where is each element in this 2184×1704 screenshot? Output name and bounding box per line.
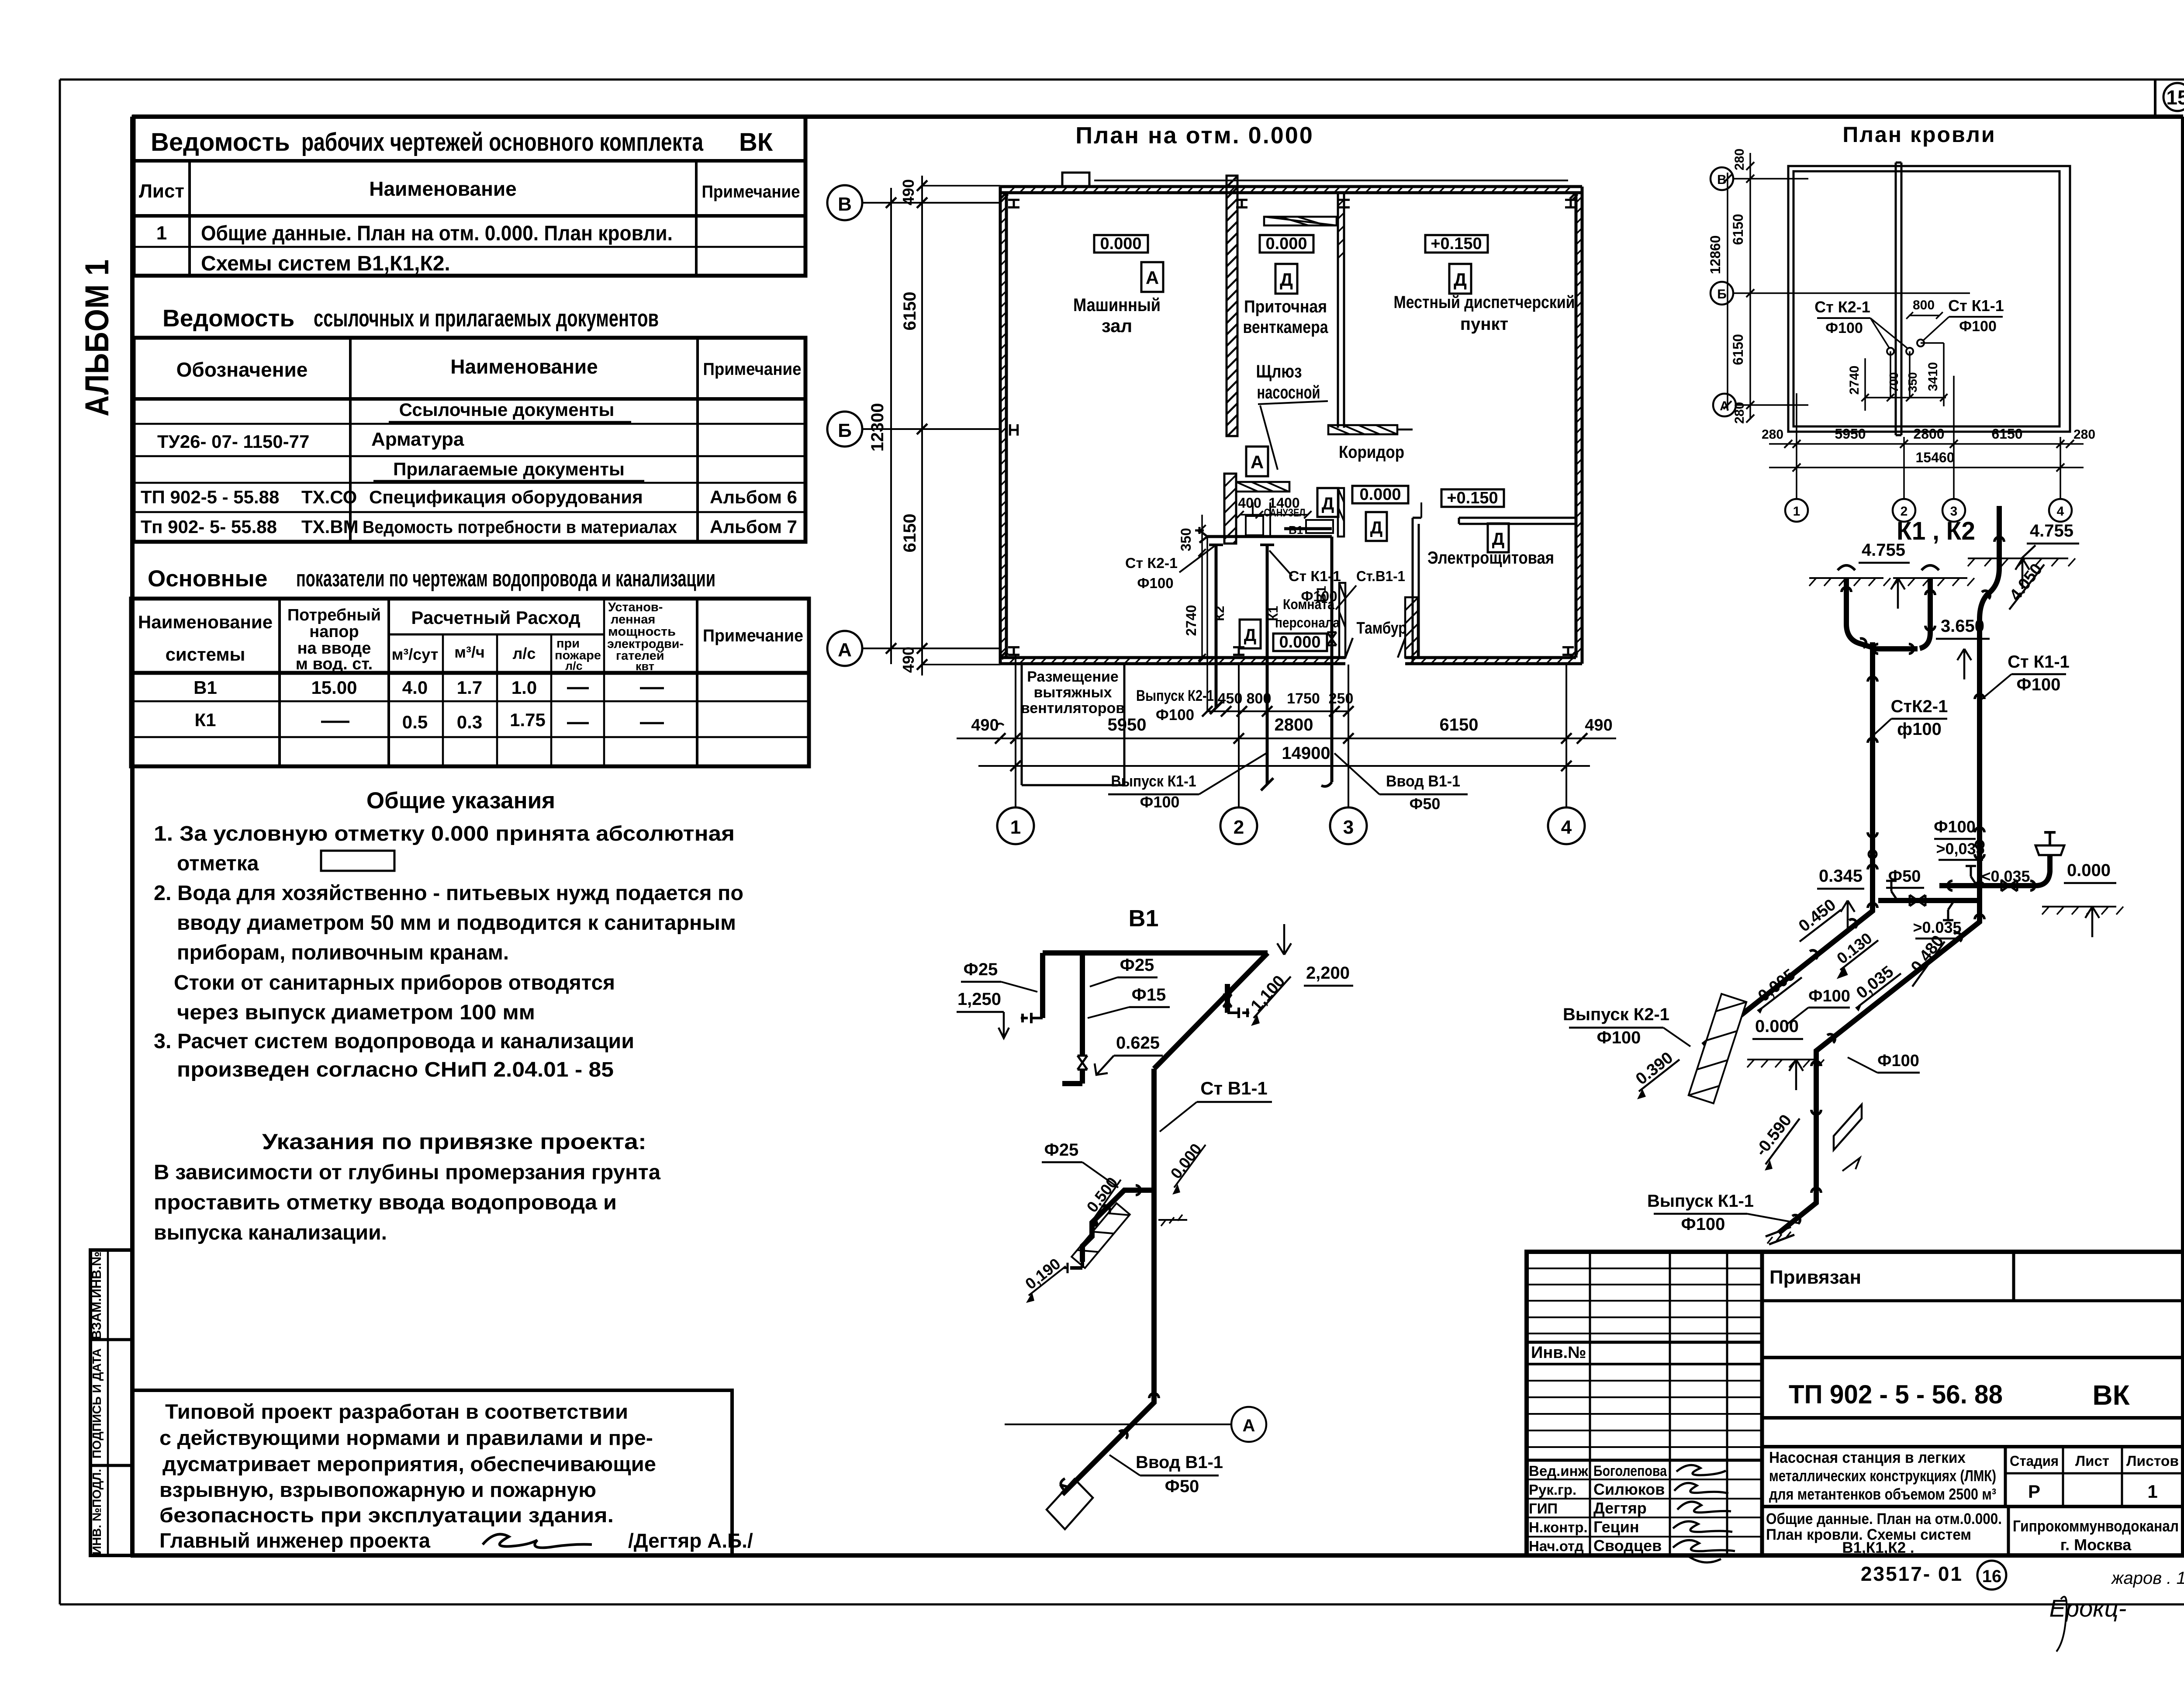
- svg-text:ПОДПИСЬ И ДАТА: ПОДПИСЬ И ДАТА: [90, 1348, 104, 1458]
- svg-text:Выпуск К2-1: Выпуск К2-1: [1136, 687, 1214, 704]
- svg-text:Ф50: Ф50: [1410, 795, 1441, 813]
- svg-text:Расчетный Расход: Расчетный Расход: [411, 607, 580, 628]
- interior wall: электрощитовая: [1413, 502, 1576, 664]
- elevation box 0.000 коридор: [1352, 485, 1408, 504]
- svg-text:Альбом 7: Альбом 7: [710, 516, 797, 537]
- svg-text:вытяжных: вытяжных: [1033, 684, 1112, 701]
- left dimension chain 490/6150/6150/490: [899, 176, 1000, 675]
- svg-text:Ст К2-1: Ст К2-1: [1814, 298, 1870, 316]
- svg-text:Наименование: Наименование: [369, 177, 516, 200]
- К1К2 scheme: label Выпуск К1-1 Ф100: [1647, 1191, 1800, 1234]
- svg-text:Гецин: Гецин: [1593, 1518, 1639, 1536]
- В1 scheme: right faucet on diagonal: [1223, 972, 1291, 1026]
- svg-text:15.00: 15.00: [311, 677, 357, 698]
- elevation box 0.000 комната персонала: [1273, 633, 1327, 651]
- title block grid: [1527, 1252, 2183, 1555]
- title block: organization: [2013, 1517, 2179, 1554]
- svg-text:Ведомость: Ведомость: [151, 128, 290, 156]
- roof outline: [1788, 163, 2070, 435]
- svg-text:Ст К1-1: Ст К1-1: [2008, 652, 2070, 672]
- roof bottom dimension chains: [1762, 426, 2095, 471]
- svg-text:системы: системы: [166, 644, 245, 665]
- svg-text:Тамбур: Тамбур: [1357, 619, 1407, 637]
- room label Тамбур: [1357, 619, 1407, 637]
- svg-text:Ф100: Ф100: [1808, 987, 1850, 1005]
- notes: Общие указания: [154, 788, 743, 1081]
- svg-text:1400: 1400: [1268, 495, 1299, 511]
- svg-text:Наименование: Наименование: [138, 612, 273, 632]
- svg-text:1. За условную отметку: 1. За условную отметку 0.000 принята абс…: [154, 822, 735, 845]
- svg-text:6150: 6150: [1440, 715, 1479, 734]
- svg-text:Ф100: Ф100: [1301, 588, 1337, 604]
- svg-text:280: 280: [1732, 402, 1747, 424]
- label Ст.В1-1 in plan: [1336, 568, 1405, 610]
- svg-text:3410: 3410: [1926, 362, 1940, 391]
- svg-text:Ф15: Ф15: [1132, 985, 1166, 1004]
- svg-text:450: 450: [1218, 690, 1243, 707]
- svg-text:вводу диаметром 50 мм: вводу диаметром 50 мм и подводится к сан…: [177, 911, 736, 935]
- svg-text:Ф100: Ф100: [1934, 818, 1976, 836]
- svg-text:Спецификация оборудования: Спецификация оборудования: [369, 487, 643, 507]
- svg-text:Ведомость: Ведомость: [162, 305, 294, 332]
- title block signatures: [1529, 1463, 1735, 1562]
- svg-text:1: 1: [1793, 504, 1800, 519]
- svg-text:В1: В1: [1128, 905, 1158, 932]
- notes: Указания по привязке проекта: [154, 1129, 660, 1244]
- svg-text:ГИП: ГИП: [1529, 1500, 1558, 1517]
- svg-text:м³/сут: м³/сут: [392, 645, 439, 663]
- svg-text:16: 16: [1982, 1567, 2002, 1586]
- section marker А шлюз: [1246, 447, 1268, 476]
- circled 16: [1977, 1561, 2006, 1590]
- elevation box +0.150 электрощитовая: [1441, 489, 1504, 507]
- svg-text:Р: Р: [2028, 1481, 2040, 1502]
- В1 scheme: bottom bend and ввод: [1005, 1393, 1266, 1529]
- label Выпуск К2-1 Ф100: [1136, 687, 1214, 724]
- svg-text:490: 490: [899, 179, 917, 205]
- svg-text:4.755: 4.755: [2030, 521, 2073, 540]
- room label Приточная венткамера: [1243, 297, 1329, 337]
- interior walls: тамбур: [1339, 583, 1418, 658]
- svg-text:490: 490: [971, 716, 999, 734]
- roof axis circle В: [1711, 167, 1808, 190]
- interior wall: приточная right: [1338, 193, 1344, 428]
- svg-text:12860: 12860: [1707, 236, 1723, 274]
- svg-text:Нач.отд: Нач.отд: [1529, 1538, 1584, 1554]
- svg-text:4.755: 4.755: [1862, 540, 1905, 560]
- svg-text:0.000: 0.000: [1359, 485, 1401, 504]
- room label Щлюз насосной with leader: [1256, 361, 1328, 470]
- svg-text:В: В: [1717, 173, 1727, 187]
- svg-text:Ф100: Ф100: [1877, 1052, 1919, 1070]
- svg-text:ИНВ. №ПОДЛ.: ИНВ. №ПОДЛ.: [90, 1469, 104, 1555]
- album label АЛЬБОМ 1: [79, 259, 116, 416]
- svg-text:ВК: ВК: [2092, 1379, 2130, 1411]
- svg-text:Основные: Основные: [148, 566, 267, 592]
- svg-text:Ведомость потребности в матер: Ведомость потребности в материалах: [363, 518, 677, 537]
- svg-text:Ст К2-1: Ст К2-1: [1125, 555, 1178, 571]
- label Ввод В1-1 Ф50: [1334, 753, 1468, 813]
- svg-text:Ф25: Ф25: [1044, 1140, 1079, 1160]
- svg-text:0.000: 0.000: [1279, 633, 1320, 651]
- svg-text:1.7: 1.7: [457, 677, 482, 698]
- svg-text:А: А: [838, 639, 852, 661]
- dimension 400 1400 санузел: [1237, 495, 1312, 518]
- svg-text:Главный инженер проекта: Главный инженер проекта: [159, 1529, 431, 1552]
- svg-text:3. Расчет систем водопро: 3. Расчет систем водопровода и канализац…: [154, 1030, 634, 1053]
- svg-text:1: 1: [2147, 1481, 2157, 1502]
- svg-text:Стоки от санитарных при: Стоки от санитарных приборов отводятся: [174, 971, 615, 994]
- svg-text:800: 800: [1913, 298, 1935, 312]
- room label Машинный зал: [1073, 294, 1161, 336]
- svg-text:280: 280: [1732, 149, 1747, 170]
- svg-text:Вед.инж: Вед.инж: [1529, 1463, 1589, 1479]
- side stamp strip: [90, 1250, 132, 1555]
- svg-text:напор: напор: [309, 623, 359, 641]
- svg-text:Ф100: Ф100: [1156, 707, 1194, 724]
- handwritten date жаров 13.2.89: [2111, 1569, 2184, 1588]
- table: Ведомость рабочих чертежей основного комплекта ВК: [134, 117, 805, 276]
- К1К2 scheme: label 0.000 left ground: [1747, 1017, 1824, 1090]
- svg-text:3: 3: [1343, 817, 1354, 838]
- roof axis circle А: [1713, 394, 1808, 416]
- svg-text:м³/ч: м³/ч: [454, 643, 485, 661]
- svg-text:взрывную, взрывопожарную: взрывную, взрывопожарную и пожарную: [159, 1478, 596, 1501]
- roof axis circle Б: [1711, 282, 1970, 305]
- svg-text:350: 350: [1906, 372, 1919, 393]
- К1К2 scheme: label СтК1-1 Ф100: [1982, 652, 2070, 699]
- svg-text:венткамера: венткамера: [1243, 318, 1329, 337]
- svg-text:2: 2: [1234, 817, 1244, 838]
- handwritten signature Ерокц: [2049, 1594, 2127, 1652]
- floor plan title: План на отм. 0.000: [1075, 122, 1314, 149]
- svg-text:Обозначение: Обозначение: [176, 358, 308, 381]
- К1К2 scheme: выпуск К2-1 diagonal: [1703, 896, 1878, 1045]
- table: Основные показатели по чертежам водопровода и канализации: [131, 566, 809, 766]
- axis circle 3: [1330, 665, 1367, 844]
- К1К2 scheme: label Выпуск К2-1 Ф100: [1563, 1005, 1690, 1047]
- svg-text:ТХ.СО: ТХ.СО: [301, 487, 357, 507]
- bottom dimension chain 14900: [978, 744, 1590, 771]
- room label Электрощитовая: [1427, 548, 1554, 568]
- К1К2 scheme: label 0.390: [1632, 1049, 1679, 1099]
- svg-text:400: 400: [1238, 495, 1261, 511]
- В1 scheme: riser Ст В1-1: [1154, 1069, 1272, 1393]
- svg-text:Альбом 6: Альбом 6: [710, 487, 797, 507]
- roof label К1, К2: [1897, 517, 1975, 545]
- svg-text:А: А: [1251, 452, 1264, 472]
- page number box 15: [2155, 80, 2184, 117]
- svg-text:350: 350: [1178, 528, 1194, 551]
- svg-text:Ф100: Ф100: [2017, 675, 2061, 694]
- svg-text:Ф100: Ф100: [1825, 320, 1863, 336]
- svg-text:выпуска канализации.: выпуска канализации.: [154, 1221, 387, 1244]
- svg-text:СтК2-1: СтК2-1: [1891, 697, 1948, 716]
- svg-text:Лист: Лист: [139, 180, 184, 202]
- svg-text:Общие данные. План на отм.: Общие данные. План на отм. 0.000. План к…: [201, 222, 673, 245]
- svg-text:Ссылочные документы: Ссылочные документы: [399, 399, 615, 420]
- svg-text:Н.контр.: Н.контр.: [1529, 1519, 1588, 1535]
- svg-text:Ст В1-1: Ст В1-1: [1200, 1078, 1268, 1098]
- svg-text:23517- 01: 23517- 01: [1861, 1562, 1963, 1585]
- svg-text:2. Вода для хозяйственно: 2. Вода для хозяйственно - питьевых нужд…: [154, 882, 743, 905]
- section marker Д коридор: [1366, 512, 1387, 541]
- title block: sheet name: [1762, 1507, 2183, 1556]
- svg-text:Местный диспетчерский: Местный диспетчерский: [1394, 293, 1575, 312]
- К1К2 scheme: vent stack 1 (left): [1809, 565, 1890, 648]
- svg-text:приборам, поливочным кра: приборам, поливочным кранам.: [177, 941, 509, 964]
- svg-text:рабочих чертежей основного: рабочих чертежей основного комплекта: [301, 128, 704, 156]
- svg-text:1,250: 1,250: [957, 990, 1001, 1009]
- svg-text:0.5: 0.5: [402, 712, 428, 732]
- svg-text:Д: Д: [1492, 530, 1505, 549]
- svg-text:+0.150: +0.150: [1447, 489, 1498, 507]
- svg-text:жаров . 13.2.89: жаров . 13.2.89: [2111, 1569, 2184, 1588]
- В1 scheme: middle valve branch: [1062, 953, 1170, 1084]
- roof left dimension chain: [1707, 149, 1754, 424]
- К1К2 scheme: label -0.480: [1901, 932, 1948, 987]
- elevation box +0.150 МДП: [1425, 235, 1488, 253]
- svg-text:Боголепова: Боголепова: [1593, 1463, 1667, 1479]
- svg-text:Машинный: Машинный: [1073, 294, 1161, 315]
- roof dim 800: [1906, 298, 1943, 319]
- К1К2 scheme: label <0035 right: [1981, 867, 2030, 885]
- svg-text:Ф50: Ф50: [1165, 1477, 1199, 1496]
- bottom dimension chain 490/5950/2800/6150/490: [957, 715, 1616, 744]
- svg-text:пункт: пункт: [1460, 315, 1508, 334]
- В1 scheme: label 2.200: [1277, 924, 1353, 986]
- room label Коридор: [1339, 443, 1404, 462]
- svg-text:2,200: 2,200: [1306, 963, 1350, 983]
- svg-text:Сводцев: Сводцев: [1593, 1537, 1662, 1555]
- К1К2 scheme: vent stack 2: [1893, 565, 1974, 648]
- svg-text:Выпуск К1-1: Выпуск К1-1: [1647, 1191, 1754, 1211]
- axis circle А: [827, 631, 1000, 666]
- svg-text:0.625: 0.625: [1116, 1033, 1160, 1053]
- svg-text:Наименование: Наименование: [450, 355, 598, 378]
- svg-text:ф100: ф100: [1897, 720, 1942, 739]
- svg-text:А: А: [1146, 267, 1159, 288]
- svg-text:Б: Б: [1717, 287, 1727, 301]
- svg-text:Примечание: Примечание: [702, 182, 800, 201]
- svg-text:Прилагаемые документы: Прилагаемые документы: [393, 459, 625, 479]
- svg-text:зал: зал: [1102, 315, 1132, 336]
- svg-text:безопасность при эксплу: безопасность при эксплуатации здания.: [159, 1503, 614, 1527]
- section marker Д санузел: [1317, 488, 1338, 517]
- stamp number 23517-01: [1861, 1562, 1963, 1585]
- svg-text:Ф100: Ф100: [1959, 318, 1997, 335]
- title block: name Насосная станция: [1762, 1447, 2183, 1507]
- svg-text:План кровли: План кровли: [1842, 122, 1996, 147]
- svg-text:Д: Д: [1244, 626, 1257, 645]
- svg-text:Примечание: Примечание: [703, 360, 802, 379]
- svg-text:с действующими нормами: с действующими нормами и правилами и пре…: [159, 1426, 653, 1449]
- svg-text:0.000: 0.000: [1265, 235, 1307, 253]
- svg-text:280: 280: [1762, 427, 1783, 442]
- svg-text:Дегтяр: Дегтяр: [1593, 1499, 1647, 1517]
- label Выпуск К1-1 Ф100: [1108, 753, 1266, 811]
- roof label Ст К2-1 Ф100: [1814, 298, 1908, 349]
- svg-text:6150: 6150: [1991, 426, 2022, 442]
- axis circle 1: [997, 654, 1034, 844]
- elevation box 0.000 приточная: [1260, 235, 1313, 253]
- svg-text:Гипрокоммунводоканал: Гипрокоммунводоканал: [2013, 1517, 2179, 1535]
- К1К2 scheme: bottom horizontal К2: [1817, 866, 1980, 939]
- svg-text:Инв.№: Инв.№: [1531, 1344, 1586, 1362]
- svg-text:Потребный: Потребный: [287, 606, 381, 624]
- svg-text:л/с: л/с: [565, 659, 583, 672]
- svg-text:700: 700: [1887, 372, 1901, 393]
- svg-text:дусматривает мероприятия: дусматривает мероприятия, обеспечивающие: [162, 1452, 656, 1475]
- interior wall: venting chamber top band: [1264, 217, 1337, 225]
- svg-text:1750: 1750: [1287, 690, 1320, 707]
- svg-text:В1: В1: [194, 677, 217, 698]
- К1К2 scheme: Ф50 branch with faucet: [1886, 832, 2064, 891]
- svg-text:4: 4: [1561, 817, 1572, 838]
- section marker Д приточная: [1275, 264, 1297, 294]
- svg-text:Арматура: Арматура: [371, 429, 464, 450]
- svg-text:2800: 2800: [1913, 426, 1944, 442]
- section marker А машзал: [1141, 262, 1163, 292]
- svg-text:Привязан: Привязан: [1769, 1267, 1861, 1288]
- svg-text:Типовой проект разработа: Типовой проект разработан в соответствии: [165, 1400, 628, 1423]
- svg-text:2800: 2800: [1275, 715, 1313, 734]
- svg-text:12300: 12300: [868, 403, 887, 451]
- svg-text:проставить отметку: проставить отметку ввода водопровода и: [154, 1191, 617, 1214]
- svg-text:Ст К1-1: Ст К1-1: [1289, 568, 1341, 584]
- svg-text:г. Москва: г. Москва: [2060, 1536, 2132, 1554]
- svg-text:вентиляторов: вентиляторов: [1021, 700, 1125, 717]
- svg-text:Ф25: Ф25: [1120, 956, 1154, 975]
- К1К2 scheme: label Ф100 >0.035: [1934, 818, 1984, 860]
- В1 scheme: left faucet branch: [957, 953, 1043, 1038]
- svg-text:л/с: л/с: [513, 644, 536, 662]
- svg-text:15460: 15460: [1916, 450, 1955, 465]
- К1К2 scheme: header 3.650: [1873, 616, 1990, 679]
- svg-text:>0,035: >0,035: [1936, 840, 1984, 858]
- svg-text:Насосная станция в легких: Насосная станция в легких: [1769, 1448, 1966, 1466]
- К1К2 scheme: riser СтК1-1: [1975, 619, 1984, 912]
- label Ст К1-1 Ф100 in plan: [1269, 551, 1341, 604]
- В1 scheme: top main pipe: [1043, 953, 1268, 1069]
- svg-text:Выпуск К1-1: Выпуск К1-1: [1111, 772, 1196, 790]
- К1К2 scheme: wall crossing hatch К2: [1689, 994, 1746, 1104]
- svg-text:Д: Д: [1322, 494, 1334, 513]
- roof axis circle 3: [1942, 376, 1965, 522]
- roof axis circle 1: [1785, 393, 1808, 522]
- title block: стадия лист листов: [2005, 1447, 2183, 1507]
- svg-text:квт: квт: [636, 660, 654, 673]
- svg-text:Д: Д: [1280, 269, 1293, 290]
- svg-text:Коридор: Коридор: [1339, 443, 1404, 462]
- svg-text:В: В: [838, 194, 852, 215]
- svg-text:Ввод В1-1: Ввод В1-1: [1136, 1453, 1223, 1472]
- svg-text:+0.150: +0.150: [1431, 235, 1482, 253]
- interior wall: МДП bottom: [1328, 425, 1413, 434]
- svg-text:произведен согласно СН: произведен согласно СНиП 2.04.01 - 85: [177, 1058, 614, 1081]
- svg-text:<0,035: <0,035: [1981, 867, 2030, 885]
- svg-text:1: 1: [156, 222, 167, 244]
- В1 scheme: mid branch with wall crossing: [1022, 1140, 1206, 1303]
- svg-text:Рук.гр.: Рук.гр.: [1529, 1482, 1576, 1498]
- svg-text:Листов: Листов: [2126, 1453, 2179, 1469]
- svg-text:2740: 2740: [1183, 605, 1199, 636]
- svg-text:К2: К2: [1213, 606, 1227, 621]
- svg-text:4.0: 4.0: [402, 677, 428, 698]
- svg-text:6150: 6150: [900, 514, 919, 553]
- roof axis circle 4: [2049, 437, 2072, 522]
- title block: document number ТП 902-5-56.88 ВК: [1762, 1358, 2183, 1418]
- К1К2 scheme: label СтК2-1 Ф100: [1875, 697, 1948, 739]
- svg-text:м вод. ст.: м вод. ст.: [296, 655, 373, 673]
- wall columns (I-beam marks): [1008, 200, 1576, 655]
- svg-text:1.0: 1.0: [511, 677, 537, 698]
- svg-text:через выпуск диаметром: через выпуск диаметром 100 мм: [177, 1001, 535, 1024]
- К1К2 scheme: label 0.000 right: [2042, 861, 2123, 937]
- roof label Ст К1-1 Ф100: [1923, 297, 2004, 341]
- svg-text:Ф25: Ф25: [964, 960, 998, 979]
- svg-text:К1 , К2: К1 , К2: [1897, 517, 1975, 545]
- svg-text:Ст.В1-1: Ст.В1-1: [1356, 568, 1405, 584]
- box Размещение вытяжных вентиляторов: [1021, 664, 1125, 785]
- section marker Д МДП: [1449, 264, 1471, 294]
- svg-text:Ф100: Ф100: [1597, 1028, 1641, 1047]
- svg-text:490: 490: [1585, 716, 1612, 734]
- pipe manifold в санузле: [1195, 523, 1332, 543]
- svg-text:А: А: [1243, 1416, 1255, 1435]
- svg-text:металлических конструкциях (ЛМ: металлических конструкциях (ЛМК): [1769, 1467, 1996, 1485]
- pipe riser К2 in plan: [1209, 545, 1223, 714]
- roof plan title: План кровли: [1842, 122, 1996, 147]
- svg-text:490: 490: [899, 647, 917, 673]
- svg-text:5950: 5950: [1835, 426, 1866, 442]
- interior walls: санузел: [1224, 474, 1344, 544]
- svg-text:В зависимости от глубин: В зависимости от глубины промерзания гру…: [154, 1161, 660, 1184]
- svg-text:1.75: 1.75: [510, 710, 546, 730]
- К1К2 scheme: выпуск К1-1 diagonal and drop: [1752, 912, 1984, 1244]
- note box: Типовой проект: [132, 1390, 753, 1556]
- svg-text:2740: 2740: [1847, 366, 1862, 395]
- svg-text:Ф50: Ф50: [1888, 867, 1921, 886]
- svg-text:1: 1: [1010, 817, 1021, 838]
- К1К2 scheme: riser СтК2-1: [1868, 642, 1877, 900]
- В1 scheme title: [1128, 905, 1158, 932]
- svg-text:персонала: персонала: [1275, 615, 1340, 630]
- sanuzel fixtures: [1246, 502, 1333, 537]
- section marker Д комната: [1240, 620, 1261, 648]
- title block: Инв.№ label: [1531, 1344, 1586, 1362]
- svg-text:/Дегтяр А.Б./: /Дегтяр А.Б./: [628, 1529, 753, 1552]
- svg-text:0.000: 0.000: [1100, 235, 1141, 253]
- svg-text:Ф100: Ф100: [1140, 793, 1180, 811]
- svg-text:В1,К1,К2 .: В1,К1,К2 .: [1842, 1539, 1914, 1556]
- svg-text:Размещение: Размещение: [1027, 668, 1119, 685]
- svg-text:ВК: ВК: [739, 128, 773, 156]
- svg-text:5950: 5950: [1108, 715, 1147, 734]
- svg-text:Приточная: Приточная: [1244, 297, 1327, 316]
- svg-text:Стадия: Стадия: [2010, 1453, 2059, 1469]
- room label Местный диспетчерский пункт: [1394, 293, 1575, 334]
- pipe riser К1 in plan: [1260, 545, 1274, 790]
- svg-text:6150: 6150: [1730, 214, 1746, 245]
- svg-text:6150: 6150: [1730, 334, 1746, 365]
- title block: Привязан cell: [1762, 1252, 2183, 1301]
- drawing frame: [132, 117, 2183, 1555]
- roof vent stacks: [1847, 339, 1947, 411]
- svg-text:Ф100: Ф100: [1137, 575, 1173, 591]
- section marker Д электрощитовая: [1488, 523, 1509, 552]
- svg-text:ТХ.ВМ: ТХ.ВМ: [301, 516, 359, 537]
